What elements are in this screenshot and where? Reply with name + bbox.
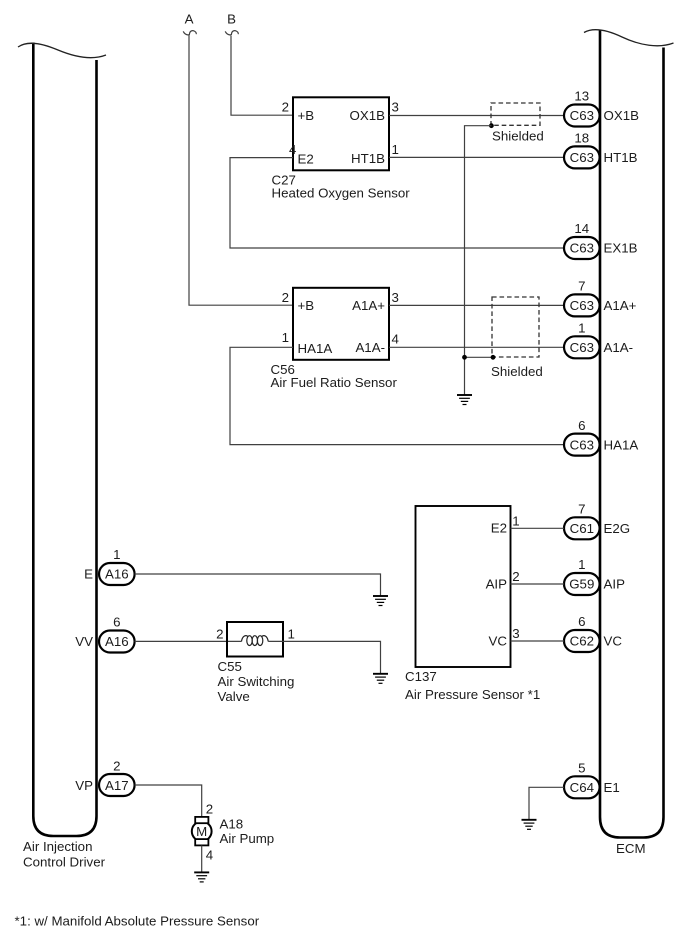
- svg-text:C61: C61: [570, 521, 594, 536]
- svg-text:M: M: [196, 824, 207, 839]
- svg-text:Valve: Valve: [218, 689, 250, 704]
- left bus pin E / A16: [84, 547, 134, 585]
- coil C55: [242, 636, 249, 642]
- wire C27 OX1B to ECM OX1B: [389, 115, 564, 117]
- svg-text:C63: C63: [570, 340, 594, 355]
- svg-text:3: 3: [392, 290, 399, 305]
- wire C27 HT1B to ECM HT1B: [389, 156, 564, 158]
- svg-text:Shielded: Shielded: [491, 364, 543, 379]
- svg-text:E2: E2: [491, 520, 507, 535]
- svg-text:C63: C63: [570, 241, 594, 256]
- svg-text:1: 1: [392, 142, 399, 157]
- svg-text:3: 3: [392, 100, 399, 115]
- ground (E): [373, 596, 388, 606]
- svg-text:A18: A18: [220, 817, 244, 832]
- svg-text:Air Switching: Air Switching: [218, 674, 295, 689]
- connector C63 pin 1 A1A-: [564, 321, 633, 359]
- svg-text:*1: w/ Manifold Absolute Press: *1: w/ Manifold Absolute Pressure Sensor: [15, 914, 260, 929]
- connector G59 pin 1 AIP: [564, 557, 625, 595]
- svg-text:6: 6: [113, 615, 120, 630]
- svg-text:Control Driver: Control Driver: [23, 855, 106, 870]
- svg-text:C55: C55: [218, 659, 242, 674]
- svg-text:4: 4: [289, 142, 296, 157]
- svg-text:C137: C137: [405, 669, 437, 684]
- svg-text:C62: C62: [570, 634, 594, 649]
- svg-text:3: 3: [512, 626, 519, 641]
- svg-text:HA1A: HA1A: [298, 341, 333, 356]
- svg-text:A1A+: A1A+: [604, 298, 637, 313]
- svg-text:A16: A16: [105, 634, 129, 649]
- wire C56 A1A- to ECM A1A-: [389, 346, 564, 348]
- label A18 Air Pump: [220, 817, 275, 847]
- svg-text:E: E: [84, 567, 93, 582]
- node B: [225, 12, 238, 35]
- svg-text:ECM: ECM: [616, 841, 646, 856]
- connector C62 pin 6 VC: [564, 614, 622, 652]
- ground (C55): [373, 674, 388, 684]
- label C137 Air Pressure Sensor *1: [405, 669, 540, 702]
- svg-text:A: A: [185, 12, 194, 27]
- label C27 Heated Oxygen Sensor: [272, 172, 411, 200]
- wire C137 VC to ECM VC: [511, 640, 565, 642]
- wire C137 AIP to ECM AIP: [511, 583, 565, 585]
- svg-text:1: 1: [113, 547, 120, 562]
- svg-text:C63: C63: [570, 108, 594, 123]
- wire E A16 to ground: [135, 574, 381, 596]
- svg-text:VP: VP: [75, 778, 93, 793]
- shielded cable box (C27): [491, 103, 540, 125]
- junction dot shield C27: [489, 123, 494, 128]
- svg-text:+B: +B: [298, 108, 315, 123]
- connector C63 pin 13 OX1B: [564, 89, 639, 127]
- air switching valve C55: [227, 622, 283, 657]
- svg-text:Air Pressure Sensor *1: Air Pressure Sensor *1: [405, 687, 540, 702]
- connector C64 pin 5 E1: [564, 761, 620, 799]
- wire C137 E2 to ECM E2G: [511, 527, 565, 529]
- svg-text:E1: E1: [604, 780, 620, 795]
- wire B to C27 +B: [231, 36, 293, 116]
- bus Air Injection Control Driver (left): [18, 43, 106, 837]
- svg-text:2: 2: [282, 290, 289, 305]
- shielded cable box (C56): [492, 297, 539, 357]
- svg-text:E2G: E2G: [604, 521, 631, 536]
- left bus pin VV / A16: [75, 615, 134, 653]
- connector C63 pin 14 EX1B: [564, 221, 638, 259]
- svg-text:18: 18: [574, 131, 589, 146]
- svg-text:VV: VV: [75, 634, 93, 649]
- connector C61 pin 7 E2G: [564, 502, 630, 540]
- junction dot shield C56: [491, 355, 496, 360]
- svg-text:4: 4: [392, 332, 399, 347]
- svg-text:AIP: AIP: [486, 577, 508, 592]
- ground (shield): [457, 395, 472, 405]
- svg-text:14: 14: [574, 221, 589, 236]
- svg-text:VC: VC: [604, 634, 623, 649]
- svg-text:A1A-: A1A-: [604, 340, 634, 355]
- wire C27 E2 to ECM EX1B: [230, 158, 564, 248]
- svg-text:13: 13: [574, 89, 589, 104]
- svg-text:B: B: [227, 12, 236, 27]
- heated oxygen sensor C27: [293, 97, 389, 170]
- svg-text:HT1B: HT1B: [351, 151, 385, 166]
- motor A18 air pump: [192, 817, 212, 845]
- wire A18 to ground: [201, 846, 203, 873]
- svg-text:A17: A17: [105, 778, 129, 793]
- svg-text:5: 5: [578, 761, 585, 776]
- bus ECM (right): [584, 30, 674, 838]
- svg-text:VC: VC: [489, 634, 508, 649]
- svg-text:7: 7: [578, 279, 585, 294]
- svg-text:6: 6: [578, 614, 585, 629]
- ground (E1): [522, 820, 537, 830]
- svg-text:Air Injection: Air Injection: [23, 839, 92, 854]
- label C56 Air Fuel Ratio Sensor: [271, 362, 398, 390]
- node A: [183, 12, 196, 35]
- svg-text:C63: C63: [570, 437, 594, 452]
- wire shield link C56: [465, 356, 494, 358]
- connector C63 pin 18 HT1B: [564, 131, 638, 169]
- label Air Injection Control Driver: [23, 839, 106, 870]
- svg-text:7: 7: [578, 502, 585, 517]
- svg-text:1: 1: [512, 514, 519, 529]
- svg-text:HT1B: HT1B: [604, 150, 638, 165]
- svg-text:2: 2: [282, 100, 289, 115]
- ground (A18): [194, 872, 209, 882]
- svg-text:2: 2: [206, 802, 213, 817]
- svg-text:C64: C64: [570, 780, 594, 795]
- wire C55 pin1 to ground: [268, 641, 380, 673]
- svg-text:+B: +B: [298, 298, 315, 313]
- svg-text:AIP: AIP: [604, 577, 626, 592]
- connector C63 pin 7 A1A+: [564, 279, 637, 317]
- svg-text:4: 4: [206, 848, 213, 863]
- left bus pin VP / A17: [75, 758, 134, 796]
- svg-text:E2: E2: [298, 152, 314, 167]
- svg-text:A1A+: A1A+: [352, 298, 385, 313]
- wire C56 HA1A to ECM HA1A: [230, 347, 564, 444]
- svg-text:A16: A16: [105, 567, 129, 582]
- svg-text:1: 1: [282, 330, 289, 345]
- label C55 Air Switching Valve: [218, 659, 295, 704]
- air pressure sensor C137: [416, 506, 511, 667]
- wire A to C56 +B: [189, 35, 293, 305]
- svg-text:Heated Oxygen Sensor: Heated Oxygen Sensor: [272, 186, 411, 201]
- svg-text:2: 2: [216, 626, 223, 641]
- svg-text:2: 2: [512, 569, 519, 584]
- svg-text:C63: C63: [570, 298, 594, 313]
- svg-text:OX1B: OX1B: [350, 108, 386, 123]
- svg-text:A1A-: A1A-: [355, 340, 385, 355]
- wire VP A17 to air pump: [135, 785, 202, 817]
- svg-text:1: 1: [578, 557, 585, 572]
- svg-text:Air Fuel Ratio Sensor: Air Fuel Ratio Sensor: [271, 375, 398, 390]
- svg-text:EX1B: EX1B: [604, 241, 638, 256]
- wire ECM E1 to ground: [529, 787, 564, 819]
- junction dot shield drain: [462, 355, 467, 360]
- svg-text:Shielded: Shielded: [492, 129, 544, 144]
- svg-text:C63: C63: [570, 150, 594, 165]
- svg-text:6: 6: [578, 418, 585, 433]
- svg-text:1: 1: [288, 626, 295, 641]
- wire VV A16 to C55: [135, 640, 242, 642]
- wire C56 A1A+ to ECM A1A+: [389, 304, 564, 306]
- wire shield drain to ground: [465, 126, 492, 395]
- connector C63 pin 6 HA1A: [564, 418, 638, 456]
- svg-text:HA1A: HA1A: [604, 437, 639, 452]
- svg-text:Air Pump: Air Pump: [220, 831, 275, 846]
- svg-text:2: 2: [113, 758, 120, 773]
- svg-text:1: 1: [578, 321, 585, 336]
- svg-text:G59: G59: [569, 577, 594, 592]
- air fuel ratio sensor C56: [293, 288, 389, 360]
- svg-text:OX1B: OX1B: [604, 108, 640, 123]
